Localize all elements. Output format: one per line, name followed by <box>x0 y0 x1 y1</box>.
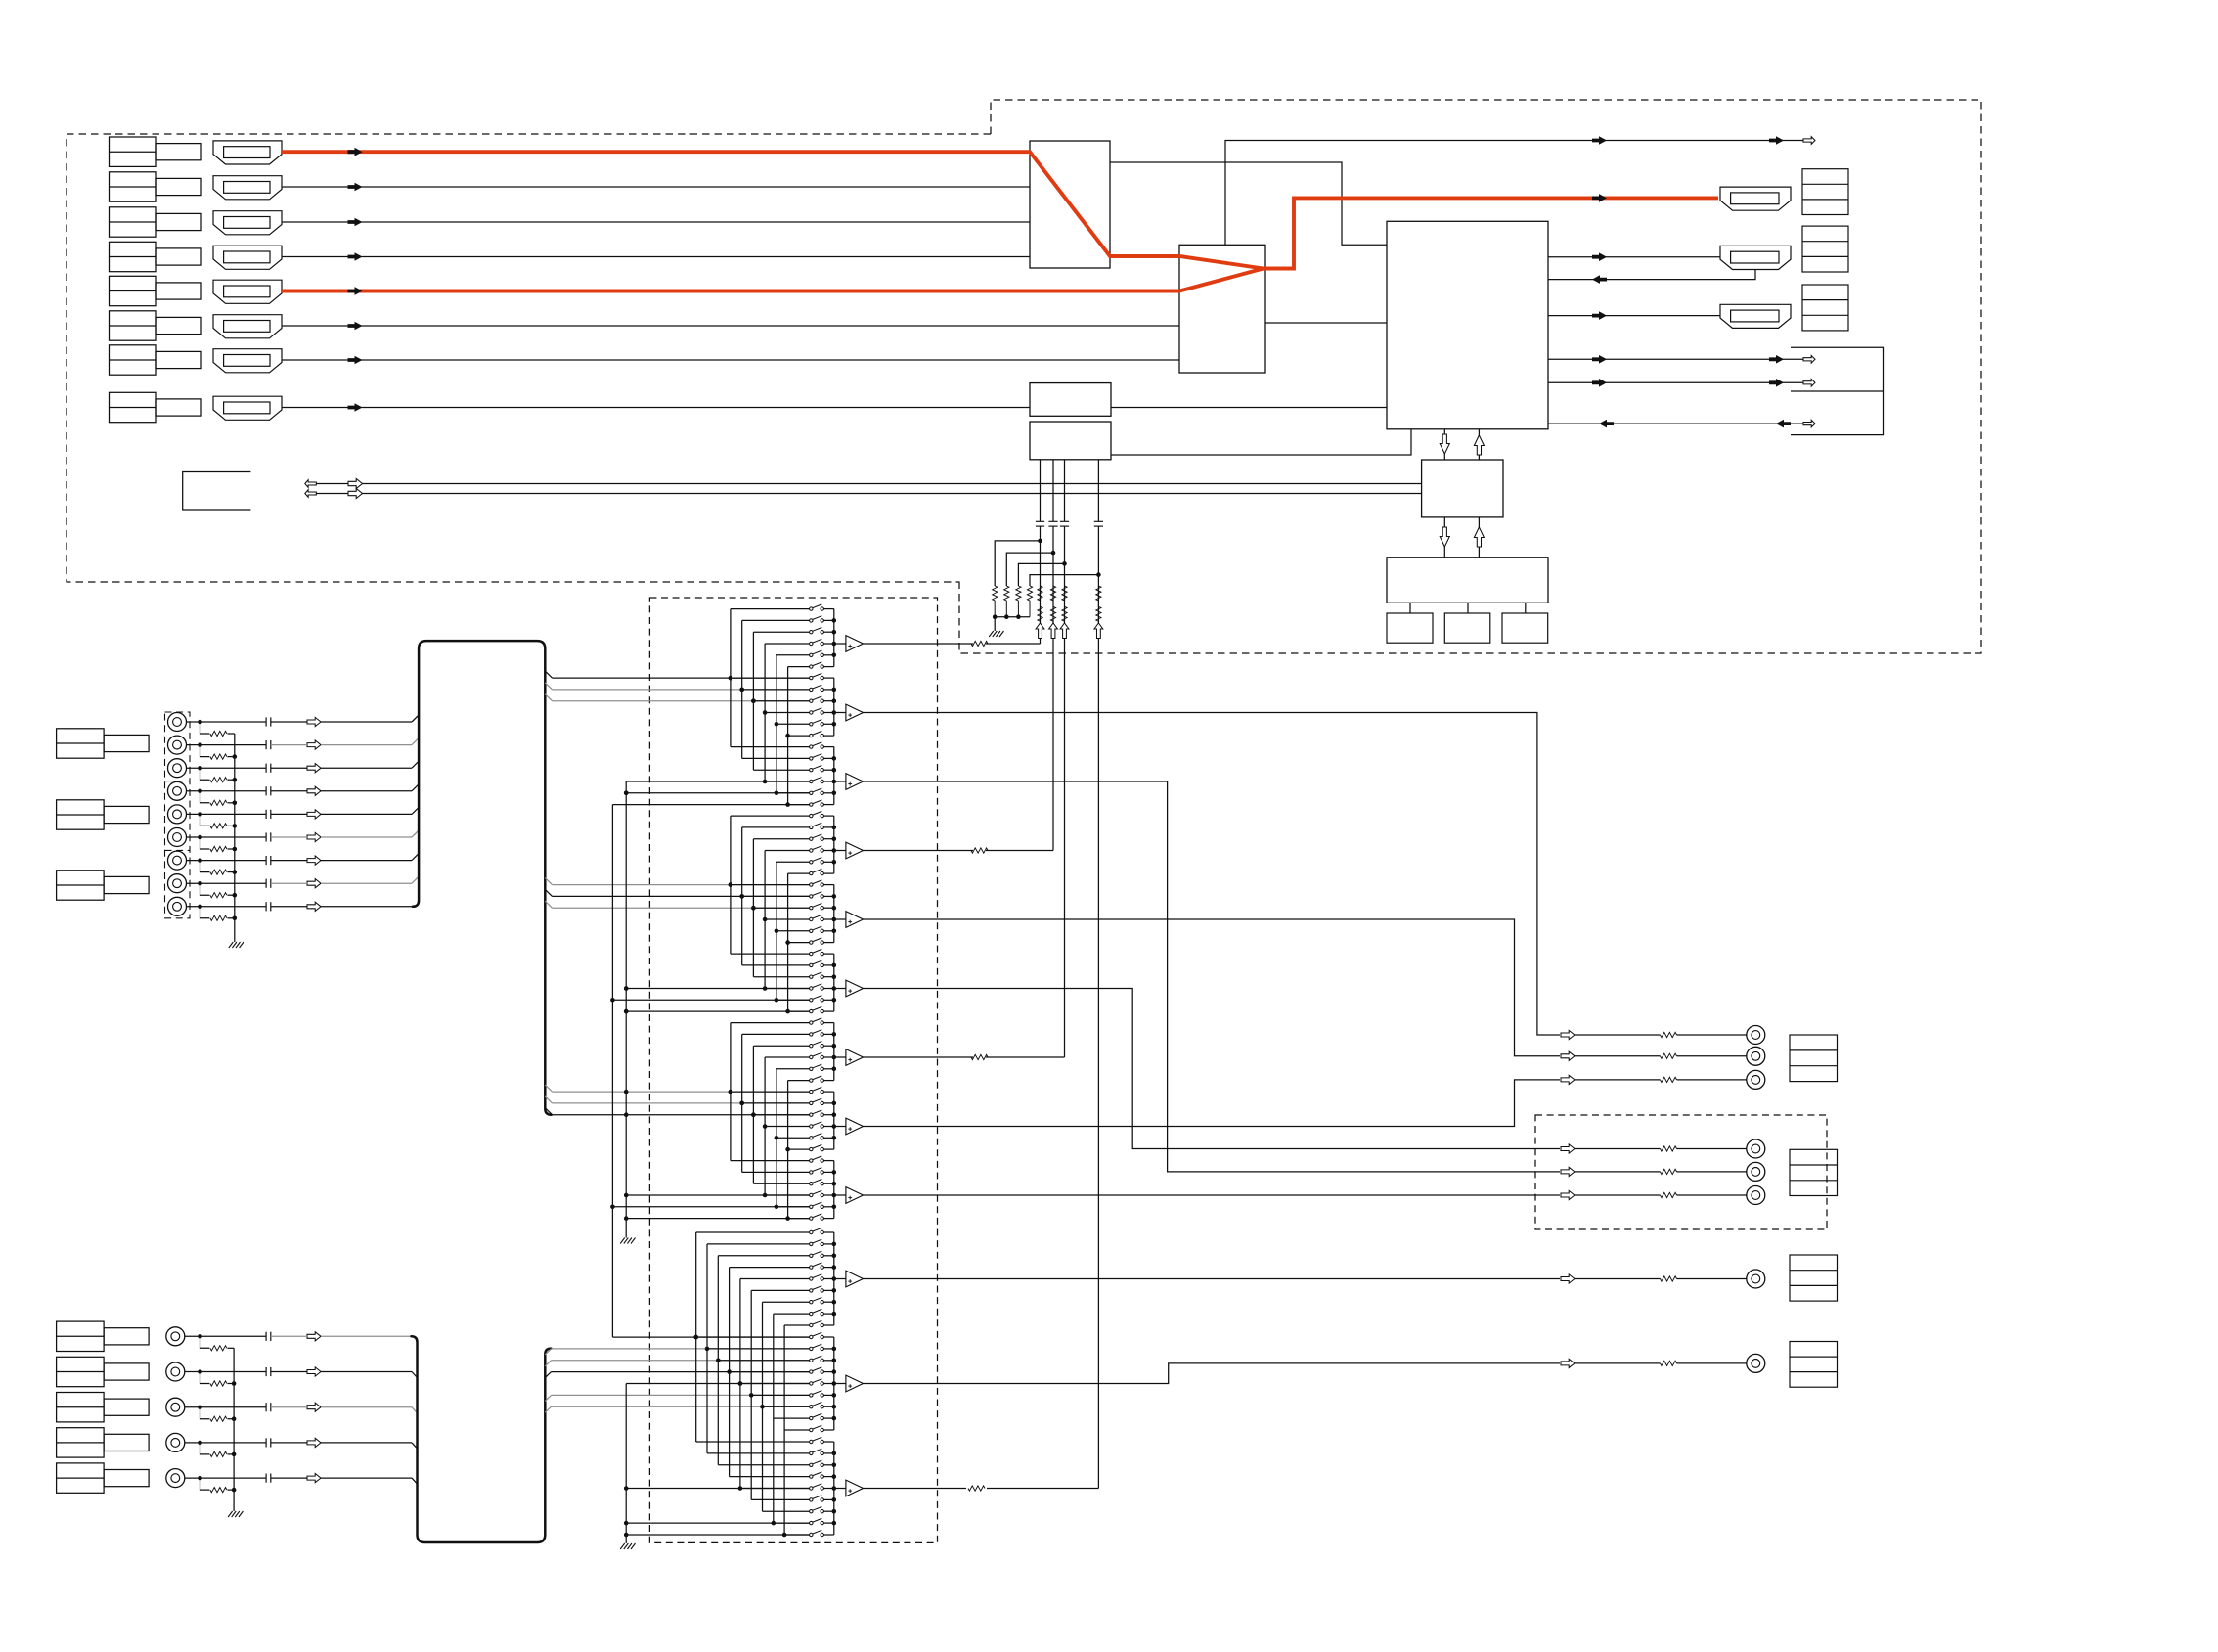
switch SW6-1 <box>810 952 813 955</box>
resistor RB3 <box>210 1416 227 1421</box>
resistor RO4 <box>971 848 988 853</box>
switch SWL1-5 <box>810 1277 813 1280</box>
resistor RB5 <box>210 1488 227 1493</box>
wire switch out <box>823 1206 833 1208</box>
switch SWL1-4 <box>810 1266 813 1269</box>
node column SG1 c3 mid <box>751 698 756 703</box>
resistor ROL3 <box>968 1486 985 1491</box>
switch SW8-2 <box>810 1101 813 1104</box>
matrix column SG2 c1 <box>730 816 732 954</box>
resistor out B3 <box>1661 1192 1677 1197</box>
resistor R3a <box>1062 586 1067 601</box>
wire switch out <box>823 792 833 794</box>
bus VA vertical <box>611 805 613 1338</box>
wire out3 rec <box>864 781 1561 1172</box>
wire U7 to X1 <box>1409 603 1411 613</box>
wire jack J2 <box>187 744 267 746</box>
switch SW1-6 <box>810 665 813 668</box>
wire jack J4 <box>187 790 267 792</box>
node feed SG2 col4 <box>763 986 768 991</box>
arrow open JB3 <box>307 1403 321 1411</box>
matrix column low c1 <box>695 1232 697 1442</box>
wire jack J5 <box>187 813 267 815</box>
switch SW5-1 <box>810 883 813 886</box>
arrow open up V4 <box>1094 623 1103 639</box>
block U6 micro <box>1422 460 1503 517</box>
capacitor C2 <box>1048 520 1057 522</box>
capacitor CJ1 <box>265 717 267 726</box>
wire to resistor J2 <box>200 745 210 757</box>
switch SW9-4 <box>810 1193 813 1196</box>
arrow HDMI5 over red <box>348 287 363 295</box>
bus line V1 <box>1040 460 1042 522</box>
node J5 <box>198 812 202 817</box>
RCA output jack D1 <box>1747 1354 1765 1372</box>
arrow open J5 <box>307 810 321 819</box>
ground bus RCA bottom <box>233 1348 235 1511</box>
switch SWL3-9 <box>810 1533 813 1536</box>
switch SW3-3 <box>810 769 813 772</box>
RCA output jack B2 <box>1747 1162 1765 1181</box>
wire to resistor J3 <box>200 768 210 780</box>
wire switch out <box>823 769 833 771</box>
block U3 HDMI transmitter <box>1387 221 1548 428</box>
arrow open out A3 <box>1561 1075 1575 1084</box>
HDMI input 6 label box <box>110 311 157 340</box>
arrow HDMI out2 return <box>1592 275 1607 284</box>
arrow aux3 b <box>1776 420 1791 428</box>
wire out B1 <box>1575 1148 1661 1150</box>
node tap T4 <box>1096 572 1101 577</box>
wire switch out <box>823 608 833 610</box>
switch SW1-4 <box>810 642 813 645</box>
switch SW9-3 <box>810 1183 813 1185</box>
arrow HDMI out2 <box>1592 252 1607 261</box>
wire switch out <box>823 918 833 920</box>
matrix column SG1 c2 <box>741 620 743 758</box>
wire out7 to V3 <box>864 1056 974 1058</box>
wire HDMI out2 return <box>1548 270 1755 280</box>
RCA input jack J4 <box>168 781 187 800</box>
arrow open J3 <box>307 764 321 773</box>
node column SG2 c4 mid <box>763 917 768 922</box>
matrix column SG2 c6 <box>787 873 789 1011</box>
capacitor C1 <box>1036 520 1044 522</box>
switch SWL1-1 <box>810 1230 813 1233</box>
wire switch out <box>823 1080 833 1082</box>
switch SWL3-7 <box>810 1510 813 1513</box>
wire switch out <box>823 757 833 759</box>
switch SWL1-7 <box>810 1301 813 1304</box>
resistor RB4 <box>210 1451 227 1456</box>
node column SG2 c6 mid <box>785 940 790 945</box>
matrix column SG2 c4 <box>764 851 766 989</box>
wire switch out <box>823 895 833 897</box>
wire out A1 <box>1575 1034 1661 1036</box>
wire J7 to trunk <box>271 860 307 862</box>
wire switch out <box>823 735 833 737</box>
arrow out main 1 <box>1592 136 1607 145</box>
arrow open J1 <box>307 717 321 726</box>
switch SW3-2 <box>810 757 813 760</box>
wire bus feed SG3 g3 row4 <box>626 1194 809 1196</box>
switch SW5-3 <box>810 907 813 910</box>
wire switch out <box>823 1045 833 1047</box>
capacitor CJ5 <box>265 810 267 819</box>
output label C <box>1790 1255 1838 1301</box>
block U4 control upper <box>1030 383 1111 417</box>
wire bus to amp 5 <box>834 918 846 920</box>
arrow open left <box>305 480 317 488</box>
switch SW7-5 <box>810 1067 813 1070</box>
node feed SG3 col5 <box>775 1205 779 1210</box>
block U2 HDMI combiner <box>1179 245 1265 373</box>
arrow open out C1 <box>1561 1274 1575 1283</box>
wire out A3 <box>1575 1079 1661 1081</box>
node column low c7 mid <box>760 1405 765 1409</box>
wire out A2 <box>1575 1055 1661 1057</box>
RCA output jack B1 <box>1747 1139 1765 1158</box>
wire bus feed SG3 g3 row6 <box>626 1218 809 1220</box>
wire JB2 to trunk <box>271 1371 307 1373</box>
block X1 crystal <box>1387 613 1433 643</box>
wire switch out <box>823 1488 833 1490</box>
switch SW7-4 <box>810 1055 813 1058</box>
wire U6-U7 down <box>1443 517 1445 558</box>
matrix column SG1 c4 <box>764 644 766 781</box>
RCA input jack J8 <box>168 874 187 893</box>
op-amp buffer A6 <box>846 980 864 997</box>
wire trunk exit SG1 row1 <box>545 671 552 678</box>
wire out B3 <box>1575 1194 1661 1196</box>
matrix column low c6 <box>750 1290 752 1499</box>
analog input label B2 <box>57 1357 105 1386</box>
node column SG1 c2 mid <box>739 688 744 692</box>
analog input label B5 <box>57 1463 105 1493</box>
arrow aux2 a <box>1592 379 1607 387</box>
wire switch out <box>823 1498 833 1500</box>
resistor RJ4 <box>210 800 227 805</box>
node J4 <box>198 789 202 794</box>
matrix column SG2 c5 <box>776 862 777 1000</box>
matrix column SG3 c4 <box>764 1057 766 1195</box>
arrow HDMI out3 <box>1592 311 1607 320</box>
resistor R7 <box>1016 586 1021 601</box>
matrix column SG1 c1 <box>730 609 732 747</box>
node SG1 col1 <box>729 676 733 681</box>
resistor R1b <box>1038 606 1042 621</box>
arrow red out <box>1592 194 1607 202</box>
wire jack JB1 <box>185 1335 266 1337</box>
switch SW4-5 <box>810 861 813 864</box>
matrix column SG3 c3 <box>752 1046 754 1183</box>
resistor R4b <box>1096 606 1101 621</box>
wire J1 to trunk <box>271 721 307 723</box>
wire bus to amp 4 <box>834 850 846 852</box>
analog input label 1 <box>57 729 105 758</box>
block U5 control lower <box>1030 422 1111 460</box>
wire bus feed SG1 g3 row4 <box>626 781 809 782</box>
node tap T2 <box>1051 551 1056 556</box>
wire tap T3 <box>1018 563 1064 586</box>
wire bus to amp L3 <box>834 1488 846 1490</box>
wire resistor to bus J2 <box>228 756 235 758</box>
arrow aux3 a <box>1599 420 1614 428</box>
matrix column SG3 c5 <box>776 1069 777 1207</box>
node tap T3 <box>1062 561 1067 566</box>
node feed SG1 col6 <box>785 802 790 807</box>
wire switch out <box>823 1476 833 1478</box>
wire switch out <box>823 1534 833 1536</box>
node column SG1 c5 mid <box>775 722 779 727</box>
arrow open J9 <box>307 902 321 911</box>
switch SWL2-4 <box>810 1370 813 1373</box>
wire switch out <box>823 1194 833 1196</box>
op-amp buffer AL2 <box>846 1375 864 1392</box>
wire switch out <box>823 988 833 990</box>
ground RCA bottom <box>228 1511 233 1517</box>
arrow open J4 <box>307 786 321 795</box>
analog input label 3 <box>57 871 105 900</box>
output bus group L2 <box>833 1337 835 1430</box>
op-amp buffer AL1 <box>846 1271 864 1287</box>
wire switch out <box>823 1313 833 1315</box>
analog input label B1 <box>57 1321 105 1351</box>
wire bus to amp 6 <box>834 988 846 990</box>
trunk bottom cable bundle <box>412 1336 552 1542</box>
matrix column low c7 <box>762 1302 764 1511</box>
node column SG1 c4 mid <box>763 710 768 715</box>
node column SG2 c1 mid <box>729 882 733 887</box>
node J3 <box>198 766 202 771</box>
node SG3 col1 <box>729 1090 733 1094</box>
wire switch out <box>823 666 833 668</box>
wire J4 to trunk <box>271 790 307 792</box>
wire HDMI input 2 <box>282 186 1030 188</box>
arrow open J7 <box>307 856 321 865</box>
wire switch out <box>823 1348 833 1350</box>
resistor R8 <box>1027 586 1032 601</box>
wire trunk exit SG3 row2 <box>545 1096 552 1103</box>
capacitor CB5 <box>265 1474 267 1483</box>
wire out8 front3 <box>864 1080 1561 1127</box>
switch SW9-6 <box>810 1217 813 1220</box>
wire switch out <box>823 677 833 679</box>
control bus wire <box>316 493 1421 495</box>
wire to resistor JB3 <box>200 1407 210 1419</box>
wire trunk exit SG3 row1 <box>545 1085 552 1092</box>
bus line V3 <box>1064 460 1066 522</box>
switch SW8-3 <box>810 1113 813 1116</box>
matrix column low c9 <box>783 1325 785 1535</box>
switch SW1-5 <box>810 653 813 656</box>
wire resistor to bus J4 <box>228 802 235 804</box>
wire resistor to bus JB2 <box>228 1383 235 1385</box>
node tap T1 <box>1038 539 1042 544</box>
wire resistor to bus JB1 <box>228 1347 235 1349</box>
output bus group 6 <box>833 954 835 1011</box>
arrow open aux2 <box>1803 380 1815 387</box>
RCA input jack JB2 <box>166 1362 185 1381</box>
wire switch out <box>823 1243 833 1245</box>
output label B <box>1790 1149 1838 1195</box>
wire switch out <box>823 1148 833 1150</box>
red path to HDMI out <box>1264 198 1718 268</box>
wire to resistor JB5 <box>200 1478 210 1490</box>
wire jack J6 <box>187 836 267 838</box>
matrix column low c5 <box>739 1279 741 1489</box>
node column SG3 c4 mid <box>763 1124 768 1129</box>
node SG1 col2 <box>739 688 744 692</box>
wire resistor to bus J6 <box>228 848 235 850</box>
wire J5 to trunk <box>271 813 307 815</box>
wire switch out <box>823 826 833 828</box>
wire bus feed SG2 g3 row4 <box>626 988 809 990</box>
wire switch out <box>823 1452 833 1454</box>
resistor R1a <box>1038 586 1042 601</box>
switch SW3-6 <box>810 803 813 806</box>
wire jack JB5 <box>185 1477 266 1479</box>
red path HDMI5 branch <box>282 269 1264 291</box>
wire resistor to bus J8 <box>228 894 235 896</box>
wire switch out <box>823 1183 833 1184</box>
arrow open up V2 <box>1049 623 1058 639</box>
wire jack JB2 <box>185 1371 266 1373</box>
wire out C1 <box>1575 1278 1661 1280</box>
node column SG1 c1 mid <box>729 676 733 681</box>
wire resistor to bus J5 <box>228 825 235 826</box>
wire to resistor JB4 <box>200 1443 210 1454</box>
HDMI input 5 connector <box>213 280 282 303</box>
wire bus feed SG1 g3 row5 <box>626 792 809 794</box>
node column low c4 mid <box>727 1369 732 1374</box>
switch SW9-5 <box>810 1205 813 1208</box>
wire switch out <box>823 1033 833 1035</box>
output label D <box>1790 1342 1838 1388</box>
output bus group L1 <box>833 1232 835 1325</box>
node J8 <box>198 881 202 886</box>
capacitor CJ7 <box>265 856 267 865</box>
wire U7 to X3 <box>1525 603 1527 613</box>
switch SW8-1 <box>810 1090 813 1093</box>
wire trunk bottom exit 5 <box>545 1406 551 1412</box>
resistor RJ6 <box>210 846 227 851</box>
wire to resistor J5 <box>200 814 210 826</box>
dashed box zone output group <box>1535 1115 1827 1229</box>
node JB1 <box>198 1334 202 1339</box>
wire U3 aux out 1 <box>1548 358 1803 360</box>
node feed SG3 col4 <box>763 1193 768 1198</box>
wire to resistor J7 <box>200 861 210 872</box>
resistor R3b <box>1062 606 1067 621</box>
wire bus feed L3 row5 <box>626 1488 809 1490</box>
RCA input jack JB4 <box>166 1433 185 1451</box>
HDMI input 4 label box <box>110 242 157 271</box>
wire switch out <box>823 1126 833 1128</box>
capacitor CB1 <box>265 1332 267 1341</box>
arrow open U6-U7 up <box>1474 527 1484 547</box>
wire bus to ground <box>234 941 236 943</box>
matrix column SG3 c2 <box>741 1034 743 1172</box>
node SG2 col1 <box>729 882 733 887</box>
resistor out D1 <box>1661 1361 1677 1365</box>
arrow aux1 a <box>1592 355 1607 364</box>
matrix column low c8 <box>773 1314 775 1523</box>
wire JB4 to trunk <box>271 1442 307 1444</box>
HDMI input 3 connector <box>213 211 282 235</box>
wire bus to amp 2 <box>834 712 846 714</box>
wire switch out <box>823 1137 833 1139</box>
node column SG3 c1 mid <box>729 1090 733 1094</box>
node feed SG2 col6 <box>785 1009 790 1014</box>
wire out9 zone <box>864 1194 1561 1196</box>
wire switch out <box>823 1056 833 1058</box>
resistor RO7 <box>971 1054 988 1059</box>
wire resistor to bus J1 <box>228 733 235 735</box>
wire switch out <box>823 1324 833 1326</box>
ground RCA mid <box>229 942 234 948</box>
matrix column SG1 c6 <box>787 667 789 805</box>
node SG3 col3 <box>751 1112 756 1117</box>
HDMI input 8 connector <box>213 396 282 420</box>
HDMI output 2 label <box>1802 226 1848 272</box>
wire outL1 sub <box>864 1278 1561 1280</box>
wire switch out <box>823 1091 833 1093</box>
analog input label B4 <box>57 1428 105 1457</box>
switch SW6-4 <box>810 987 813 990</box>
RCA input jack J7 <box>168 851 187 870</box>
arrow open out A1 <box>1561 1030 1575 1039</box>
op-amp buffer A4 <box>846 842 864 859</box>
HDMI output 3 label <box>1802 285 1848 331</box>
switch SW2-2 <box>810 688 813 691</box>
wire trunk bottom exit 3 <box>545 1372 551 1378</box>
switch SW5-5 <box>810 929 813 932</box>
block X3 crystal <box>1502 613 1548 643</box>
wire switch out <box>823 1160 833 1162</box>
node SG1 col3 <box>751 698 756 703</box>
RCA output jack A2 <box>1747 1047 1765 1065</box>
switch SWL3-4 <box>810 1475 813 1478</box>
wire trunk bottom exit 4 <box>545 1395 551 1401</box>
wire switch out <box>823 1289 833 1291</box>
switch SWL3-8 <box>810 1521 813 1524</box>
wire to resistor JB2 <box>200 1372 210 1384</box>
op-amp buffer A3 <box>846 774 864 790</box>
arrow open right <box>348 479 363 489</box>
wire trunk exit SG1 row3 <box>545 694 552 701</box>
wire outL2 zone2 <box>864 1363 1561 1384</box>
output bus group 7 <box>833 1023 835 1081</box>
wire U4 in <box>1111 407 1387 409</box>
node column SG1 c6 mid <box>785 734 790 738</box>
switch SWL1-8 <box>810 1312 813 1315</box>
node SG2 col2 <box>739 894 744 899</box>
output bus group 2 <box>833 678 835 736</box>
switch SW4-2 <box>810 826 813 828</box>
wire bus to amp L1 <box>834 1278 846 1280</box>
control bus wire <box>316 483 1421 485</box>
matrix column low c3 <box>717 1256 719 1465</box>
wire out4 to V2 <box>864 850 974 852</box>
node J2 <box>198 742 202 747</box>
arrow open out B2 <box>1561 1167 1575 1176</box>
wire bus feed L3 row8 <box>626 1522 809 1524</box>
switch SW6-2 <box>810 963 813 966</box>
block control connector left <box>183 472 251 511</box>
wire switch out <box>823 815 833 817</box>
wire switch out <box>823 1301 833 1303</box>
